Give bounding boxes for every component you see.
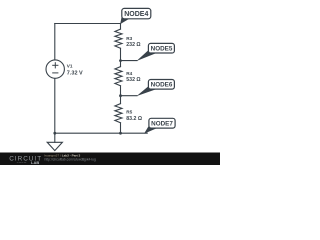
svg-text:83.2 Ω: 83.2 Ω xyxy=(126,116,142,122)
svg-text:−∼−∼: −∼−∼ xyxy=(17,161,27,165)
svg-text:NODE6: NODE6 xyxy=(151,82,173,89)
svg-text:LAB: LAB xyxy=(31,160,39,165)
svg-text:R4: R4 xyxy=(126,71,132,76)
svg-text:NODE7: NODE7 xyxy=(151,121,173,128)
svg-text:NODE4: NODE4 xyxy=(124,11,148,18)
svg-text:V1: V1 xyxy=(67,64,73,69)
svg-text:http://circuitlab.com/c/uwd8jp: http://circuitlab.com/c/uwd8jpk4-lug xyxy=(45,157,96,161)
svg-text:R3: R3 xyxy=(126,36,132,41)
svg-text:R5: R5 xyxy=(126,110,132,115)
svg-text:NODE5: NODE5 xyxy=(151,46,173,53)
svg-text:7.32 V: 7.32 V xyxy=(67,70,83,76)
svg-text:232 Ω: 232 Ω xyxy=(126,42,140,48)
svg-text:532 Ω: 532 Ω xyxy=(126,77,140,83)
